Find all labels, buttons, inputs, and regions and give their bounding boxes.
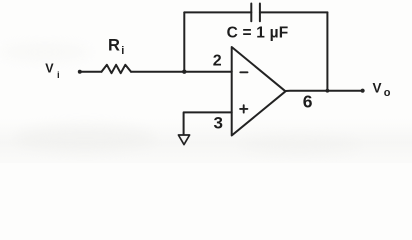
node junction at inverting input xyxy=(182,70,186,74)
svg-text:2: 2 xyxy=(213,53,222,70)
op-amp non-inverting input plus sign xyxy=(240,105,247,112)
wire top left to capacitor xyxy=(184,11,251,13)
capacitor C left plate xyxy=(250,4,252,22)
wire resistor to op-amp pin 2 xyxy=(131,71,232,73)
svg-text:o: o xyxy=(384,87,391,99)
wire op-amp pin 3 to ground xyxy=(184,112,232,134)
wire right vertical down to output xyxy=(326,12,328,90)
wire junction up to feedback xyxy=(183,12,185,71)
node Vo output dot xyxy=(361,89,365,93)
capacitor C right plate xyxy=(259,4,261,22)
node Vi input dot xyxy=(78,70,82,74)
svg-text:R: R xyxy=(108,36,120,54)
svg-text:i: i xyxy=(57,70,60,81)
op-amp inverting input minus sign xyxy=(240,71,247,73)
svg-text:C = 1 µF: C = 1 µF xyxy=(227,25,289,42)
label Vo xyxy=(373,80,391,99)
wire input Vi to resistor xyxy=(80,71,102,73)
label Ri xyxy=(108,36,124,57)
svg-text:3: 3 xyxy=(214,113,223,132)
op-amp U1 triangle xyxy=(232,47,286,136)
wire capacitor to right corner xyxy=(260,11,328,13)
node junction at output xyxy=(326,89,330,93)
resistor Ri xyxy=(102,65,132,73)
svg-text:V: V xyxy=(373,80,382,95)
label Vi xyxy=(45,61,59,81)
ground xyxy=(178,135,189,145)
svg-text:V: V xyxy=(45,61,54,75)
wire op-amp output to Vo xyxy=(286,90,363,92)
svg-text:6: 6 xyxy=(303,92,313,112)
svg-text:i: i xyxy=(121,45,124,57)
